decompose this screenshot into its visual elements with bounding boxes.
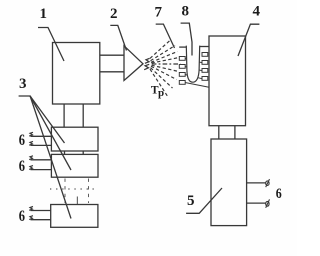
svg-text:2: 2 (110, 6, 118, 22)
svg-text:6: 6 (19, 158, 25, 176)
svg-text:3: 3 (19, 76, 27, 92)
svg-text:7: 7 (155, 5, 163, 21)
svg-text:1: 1 (40, 6, 48, 22)
svg-text:6: 6 (19, 132, 25, 150)
svg-text:6: 6 (276, 185, 282, 202)
svg-text:6: 6 (19, 207, 25, 225)
svg-text:8: 8 (182, 4, 190, 20)
svg-text:4: 4 (253, 4, 261, 20)
svg-text:5: 5 (187, 193, 195, 209)
svg-text:p: p (158, 87, 164, 99)
